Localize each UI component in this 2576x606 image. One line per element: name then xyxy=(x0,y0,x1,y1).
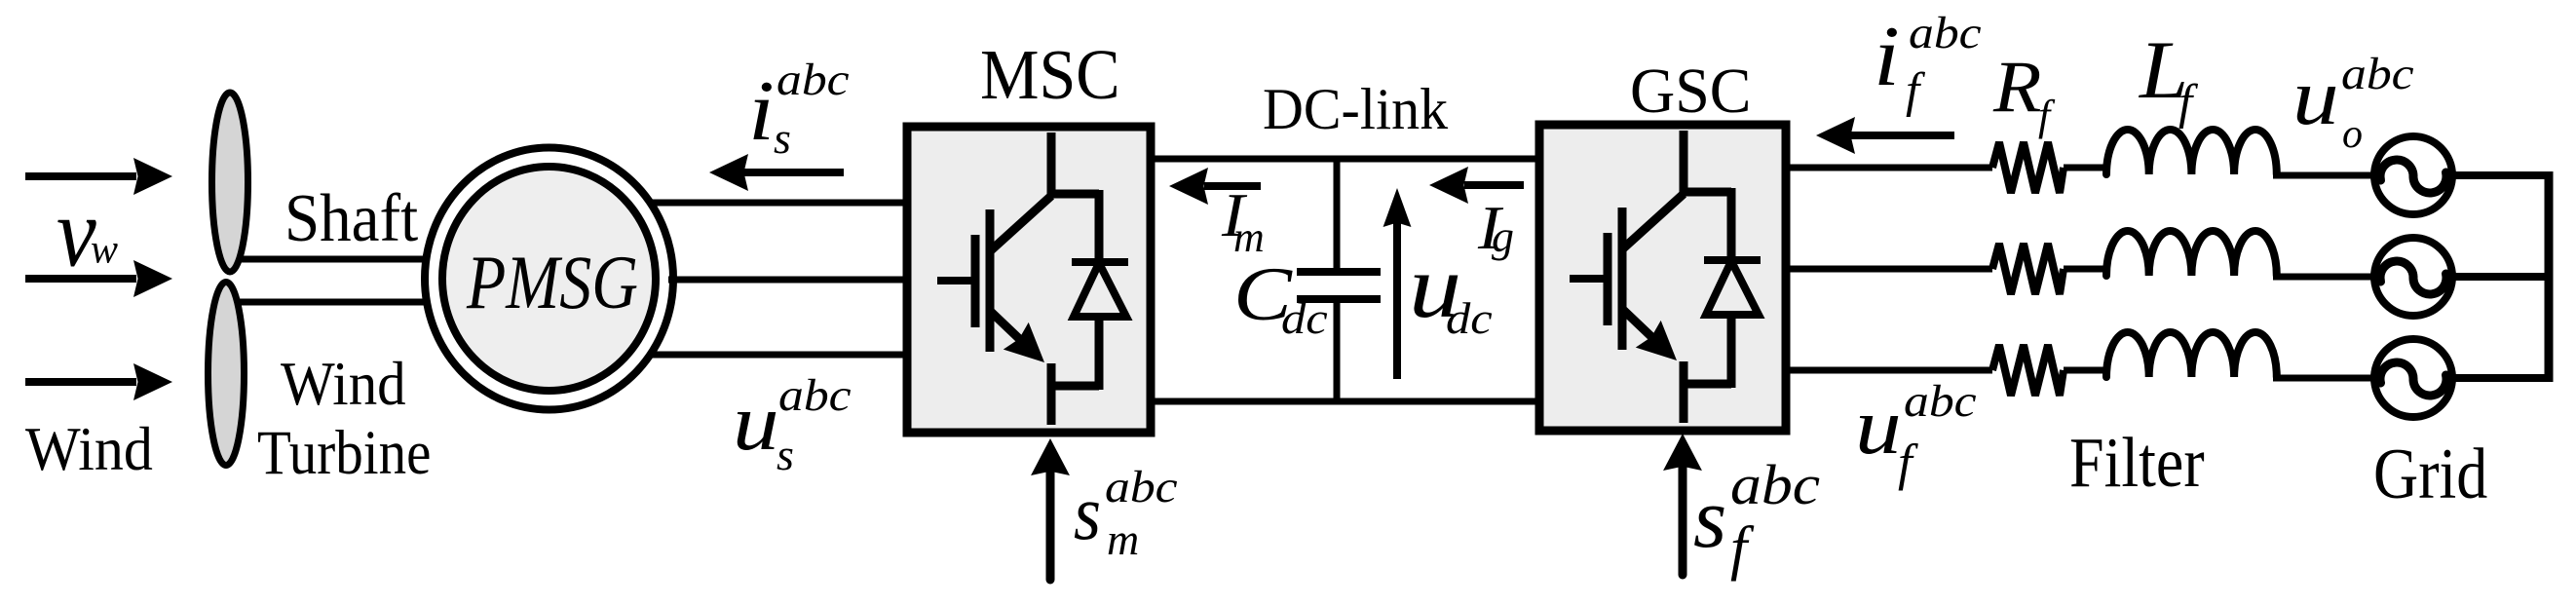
svg-text:abc: abc xyxy=(1105,461,1178,511)
svg-text:u: u xyxy=(2292,53,2339,142)
svg-text:Shaft: Shaft xyxy=(284,180,418,256)
svg-text:w: w xyxy=(91,228,118,273)
svg-text:s: s xyxy=(1074,471,1101,556)
svg-text:Wind: Wind xyxy=(281,351,406,418)
svg-text:Filter: Filter xyxy=(2069,423,2205,502)
svg-text:f: f xyxy=(2038,92,2056,139)
svg-text:PMSG: PMSG xyxy=(466,240,638,325)
svg-text:MSC: MSC xyxy=(980,36,1120,115)
svg-text:abc: abc xyxy=(1730,455,1820,517)
svg-text:abc: abc xyxy=(1904,375,1977,426)
svg-text:m: m xyxy=(1107,514,1139,564)
svg-text:f: f xyxy=(1898,435,1918,491)
svg-text:s: s xyxy=(1693,472,1726,566)
svg-text:i: i xyxy=(748,64,775,159)
svg-text:R: R xyxy=(1992,46,2042,128)
svg-text:f: f xyxy=(2178,75,2199,130)
svg-text:abc: abc xyxy=(778,369,852,420)
svg-text:Wind: Wind xyxy=(25,415,153,483)
svg-text:f: f xyxy=(1730,515,1755,582)
svg-text:abc: abc xyxy=(2341,48,2414,98)
svg-text:DC-link: DC-link xyxy=(1263,76,1448,141)
svg-text:f: f xyxy=(1906,63,1926,118)
svg-text:dc: dc xyxy=(1446,294,1493,343)
svg-text:s: s xyxy=(774,113,791,163)
svg-text:GSC: GSC xyxy=(1630,55,1751,126)
svg-text:dc: dc xyxy=(1281,294,1328,343)
svg-text:u: u xyxy=(1855,382,1902,472)
svg-text:u: u xyxy=(733,378,779,468)
svg-text:abc: abc xyxy=(777,54,850,104)
svg-text:g: g xyxy=(1492,211,1514,261)
svg-text:abc: abc xyxy=(1909,7,1982,57)
svg-text:Grid: Grid xyxy=(2373,434,2487,513)
svg-text:o: o xyxy=(2342,112,2363,157)
svg-text:i: i xyxy=(1874,10,1900,104)
svg-text:s: s xyxy=(777,430,794,479)
svg-text:Turbine: Turbine xyxy=(257,419,431,488)
